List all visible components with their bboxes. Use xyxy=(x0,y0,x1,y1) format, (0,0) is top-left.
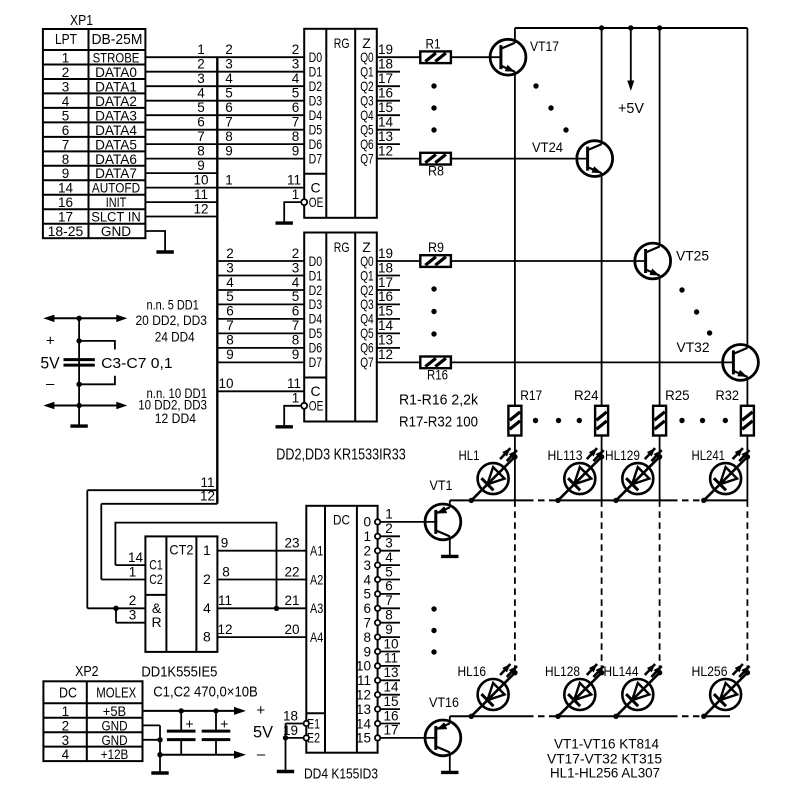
svg-text:5: 5 xyxy=(363,587,371,602)
svg-text:2: 2 xyxy=(385,521,393,536)
svg-text:SLCT IN: SLCT IN xyxy=(91,210,141,225)
svg-text:17: 17 xyxy=(378,71,393,86)
svg-text:20: 20 xyxy=(284,622,299,637)
svg-text:A4: A4 xyxy=(310,629,323,645)
svg-text:21: 21 xyxy=(284,593,299,608)
svg-text:14: 14 xyxy=(378,318,394,333)
svg-text:16: 16 xyxy=(58,195,73,210)
svg-text:9: 9 xyxy=(197,158,205,173)
svg-text:14: 14 xyxy=(378,115,394,130)
svg-text:+12B: +12B xyxy=(101,747,129,762)
svg-text:DATA4: DATA4 xyxy=(95,123,137,138)
svg-text:13: 13 xyxy=(378,333,393,348)
svg-text:R1: R1 xyxy=(426,37,441,52)
svg-text:2: 2 xyxy=(292,42,300,57)
svg-text:12: 12 xyxy=(378,347,393,362)
svg-text:1: 1 xyxy=(363,529,371,544)
svg-text:15: 15 xyxy=(378,100,393,115)
svg-text:2: 2 xyxy=(226,246,234,261)
svg-text:AUTOFD: AUTOFD xyxy=(92,181,140,196)
svg-text:VT24: VT24 xyxy=(532,139,563,155)
svg-text:8: 8 xyxy=(292,129,300,144)
svg-text:5V: 5V xyxy=(40,355,59,373)
svg-text:1: 1 xyxy=(197,42,205,57)
svg-text:15: 15 xyxy=(378,304,393,319)
svg-text:8: 8 xyxy=(226,333,234,348)
svg-text:19: 19 xyxy=(378,246,393,261)
svg-text:7: 7 xyxy=(292,115,300,130)
svg-text:DATA3: DATA3 xyxy=(95,108,137,123)
svg-text:8: 8 xyxy=(197,143,205,158)
svg-text:DATA0: DATA0 xyxy=(95,65,137,80)
svg-text:1: 1 xyxy=(62,704,70,719)
svg-text:6: 6 xyxy=(292,100,300,115)
svg-text:7: 7 xyxy=(292,318,300,333)
svg-text:R9: R9 xyxy=(428,240,444,255)
svg-text:2: 2 xyxy=(225,42,233,57)
svg-text:R16: R16 xyxy=(427,367,448,382)
svg-text:HL144: HL144 xyxy=(604,664,639,679)
svg-text:4: 4 xyxy=(197,86,205,101)
svg-text:RG: RG xyxy=(334,239,350,255)
svg-text:HL1: HL1 xyxy=(459,448,480,463)
svg-text:4: 4 xyxy=(292,275,300,290)
svg-text:11: 11 xyxy=(287,376,301,391)
svg-text:19: 19 xyxy=(378,42,393,57)
svg-text:10: 10 xyxy=(356,659,371,674)
svg-text:8: 8 xyxy=(292,333,300,348)
svg-text:4: 4 xyxy=(225,71,233,86)
svg-text:DC: DC xyxy=(333,512,350,528)
svg-text:HL128: HL128 xyxy=(545,664,580,679)
svg-text:2: 2 xyxy=(197,57,205,72)
svg-text:12: 12 xyxy=(217,622,232,637)
svg-text:8: 8 xyxy=(222,564,230,579)
svg-text:12 DD4: 12 DD4 xyxy=(155,411,197,426)
svg-text:HL1-HL256 AL307: HL1-HL256 AL307 xyxy=(550,765,660,781)
svg-text:+: + xyxy=(185,716,193,732)
svg-text:16: 16 xyxy=(378,86,393,101)
svg-text:DATA5: DATA5 xyxy=(95,137,137,152)
svg-text:3: 3 xyxy=(62,79,70,94)
svg-text:4: 4 xyxy=(62,94,70,109)
svg-text:5: 5 xyxy=(292,86,300,101)
svg-text:3: 3 xyxy=(225,57,233,72)
svg-text:3: 3 xyxy=(363,558,371,573)
svg-text:10: 10 xyxy=(218,376,233,391)
svg-text:7: 7 xyxy=(385,593,393,608)
svg-text:DATA7: DATA7 xyxy=(95,166,137,181)
svg-text:XP2: XP2 xyxy=(75,663,98,680)
svg-text:12: 12 xyxy=(378,143,393,158)
svg-text:–: – xyxy=(46,375,55,392)
svg-text:7: 7 xyxy=(197,129,205,144)
svg-text:MOLEX: MOLEX xyxy=(96,686,136,702)
svg-text:9: 9 xyxy=(226,347,234,362)
svg-text:0: 0 xyxy=(363,515,371,530)
svg-text:7: 7 xyxy=(226,318,234,333)
svg-text:n.n. 5 DD1: n.n. 5 DD1 xyxy=(147,298,199,313)
svg-text:R24: R24 xyxy=(574,388,599,403)
svg-text:1: 1 xyxy=(292,187,300,202)
svg-text:D7: D7 xyxy=(309,150,323,166)
svg-text:6: 6 xyxy=(363,601,371,616)
svg-text:C1,C2 470,0×10B: C1,C2 470,0×10B xyxy=(153,684,258,701)
svg-text:7: 7 xyxy=(62,137,70,152)
svg-text:9: 9 xyxy=(292,143,300,158)
svg-text:4: 4 xyxy=(363,572,371,587)
svg-text:DATA2: DATA2 xyxy=(95,94,137,109)
svg-text:1: 1 xyxy=(292,391,300,406)
svg-text:LPT: LPT xyxy=(55,32,77,48)
svg-text:14: 14 xyxy=(356,716,372,731)
svg-text:3: 3 xyxy=(129,608,137,623)
svg-text:–: – xyxy=(257,746,266,763)
svg-text:HL16: HL16 xyxy=(458,664,487,679)
svg-text:3: 3 xyxy=(197,71,205,86)
svg-text:18: 18 xyxy=(378,57,393,72)
svg-text:1: 1 xyxy=(385,507,393,522)
svg-text:5: 5 xyxy=(292,289,300,304)
svg-text:11: 11 xyxy=(287,172,301,187)
svg-text:4: 4 xyxy=(226,275,234,290)
svg-text:9: 9 xyxy=(292,347,300,362)
svg-text:6: 6 xyxy=(225,100,233,115)
svg-text:16: 16 xyxy=(378,289,393,304)
svg-text:VT16: VT16 xyxy=(429,694,459,710)
svg-text:6: 6 xyxy=(385,579,393,594)
svg-text:R17-R32 100: R17-R32 100 xyxy=(399,414,478,431)
svg-text:8: 8 xyxy=(225,129,233,144)
svg-text:GND: GND xyxy=(102,718,128,733)
svg-text:RG: RG xyxy=(334,35,350,51)
svg-text:10: 10 xyxy=(193,172,208,187)
svg-text:Q7: Q7 xyxy=(360,354,374,370)
svg-text:3: 3 xyxy=(292,260,300,275)
svg-text:1: 1 xyxy=(129,564,137,579)
svg-text:17: 17 xyxy=(383,723,398,738)
svg-text:14: 14 xyxy=(58,181,74,196)
svg-text:4: 4 xyxy=(292,71,300,86)
svg-text:4: 4 xyxy=(62,747,70,762)
svg-text:R: R xyxy=(151,614,161,630)
svg-text:STROBE: STROBE xyxy=(93,50,140,65)
svg-text:+: + xyxy=(256,702,265,719)
svg-text:XP1: XP1 xyxy=(70,12,93,29)
svg-text:2: 2 xyxy=(203,571,211,587)
svg-text:2: 2 xyxy=(292,246,300,261)
svg-text:GND: GND xyxy=(102,733,128,748)
svg-text:4: 4 xyxy=(203,600,211,616)
svg-text:12: 12 xyxy=(200,489,215,504)
svg-text:5: 5 xyxy=(197,100,205,115)
svg-text:DD4 K155ID3: DD4 K155ID3 xyxy=(304,766,378,783)
svg-text:VT1: VT1 xyxy=(430,477,453,493)
svg-text:6: 6 xyxy=(62,123,70,138)
svg-text:R1-R16 2,2k: R1-R16 2,2k xyxy=(399,392,478,409)
svg-text:A1: A1 xyxy=(310,543,323,559)
svg-text:VT25: VT25 xyxy=(676,248,709,264)
svg-text:17: 17 xyxy=(378,275,393,290)
svg-text:12: 12 xyxy=(356,688,371,703)
svg-text:5: 5 xyxy=(62,108,70,123)
svg-text:8: 8 xyxy=(203,629,211,645)
svg-text:18: 18 xyxy=(378,260,393,275)
svg-text:5: 5 xyxy=(385,564,393,579)
svg-text:DD1K555IE5: DD1K555IE5 xyxy=(141,664,217,681)
svg-text:3: 3 xyxy=(226,260,234,275)
svg-text:15: 15 xyxy=(356,731,371,746)
svg-text:18: 18 xyxy=(283,709,298,724)
svg-text:D7: D7 xyxy=(309,354,323,370)
svg-text:8: 8 xyxy=(363,630,371,645)
svg-text:9: 9 xyxy=(363,644,371,659)
svg-text:OE: OE xyxy=(309,194,324,210)
svg-text:3: 3 xyxy=(292,57,300,72)
svg-text:23: 23 xyxy=(284,536,299,551)
svg-text:13: 13 xyxy=(378,129,393,144)
svg-text:11: 11 xyxy=(384,651,398,666)
svg-text:14: 14 xyxy=(128,550,144,565)
svg-text:+: + xyxy=(46,333,55,350)
svg-text:Q7: Q7 xyxy=(360,150,374,166)
svg-text:22: 22 xyxy=(284,564,299,579)
svg-text:20 DD2, DD3: 20 DD2, DD3 xyxy=(136,313,208,328)
svg-text:18-25: 18-25 xyxy=(48,224,84,239)
svg-text:11: 11 xyxy=(194,187,208,202)
svg-text:+5V: +5V xyxy=(618,101,644,117)
svg-text:A2: A2 xyxy=(310,571,323,587)
svg-text:13: 13 xyxy=(356,702,371,717)
svg-text:VT17: VT17 xyxy=(530,38,559,54)
svg-text:2: 2 xyxy=(129,593,137,608)
svg-text:INIT: INIT xyxy=(106,195,127,210)
svg-text:HL113: HL113 xyxy=(548,448,583,463)
svg-text:9: 9 xyxy=(62,166,70,181)
svg-text:5: 5 xyxy=(226,289,234,304)
svg-text:10: 10 xyxy=(383,636,398,651)
svg-text:DB-25M: DB-25M xyxy=(92,32,143,48)
svg-text:7: 7 xyxy=(363,616,371,631)
svg-text:5: 5 xyxy=(225,86,233,101)
svg-text:16: 16 xyxy=(383,708,398,723)
svg-text:R32: R32 xyxy=(716,388,740,403)
svg-text:14: 14 xyxy=(383,680,399,695)
svg-text:13: 13 xyxy=(383,665,398,680)
svg-text:HL129: HL129 xyxy=(605,448,640,463)
svg-text:9: 9 xyxy=(221,536,229,551)
svg-text:15: 15 xyxy=(383,694,398,709)
svg-text:C2: C2 xyxy=(149,571,163,587)
svg-text:6: 6 xyxy=(226,304,234,319)
svg-text:C3-C7 0,1: C3-C7 0,1 xyxy=(101,355,173,372)
svg-text:+: + xyxy=(220,716,228,732)
svg-text:A3: A3 xyxy=(310,600,323,616)
svg-text:DC: DC xyxy=(59,686,77,702)
svg-text:9: 9 xyxy=(385,622,393,637)
svg-text:2: 2 xyxy=(62,65,70,80)
svg-text:12: 12 xyxy=(193,201,208,216)
svg-text:2: 2 xyxy=(363,544,371,559)
svg-text:VT32: VT32 xyxy=(677,339,710,355)
svg-text:7: 7 xyxy=(225,115,233,130)
svg-text:3: 3 xyxy=(385,536,393,551)
svg-text:8: 8 xyxy=(385,608,393,623)
svg-text:HL241: HL241 xyxy=(692,448,726,463)
svg-text:OE: OE xyxy=(309,398,324,414)
svg-text:CT2: CT2 xyxy=(169,542,193,558)
svg-text:4: 4 xyxy=(385,550,393,565)
svg-text:VT1-VT16 KT814: VT1-VT16 KT814 xyxy=(554,736,659,752)
svg-text:R8: R8 xyxy=(428,164,444,179)
svg-text:R17: R17 xyxy=(520,388,542,403)
svg-text:9: 9 xyxy=(225,143,233,158)
svg-text:GND: GND xyxy=(101,224,131,239)
svg-text:HL256: HL256 xyxy=(692,664,728,679)
svg-text:R25: R25 xyxy=(665,388,690,403)
svg-text:2: 2 xyxy=(62,718,70,733)
svg-text:5V: 5V xyxy=(253,724,273,742)
svg-text:17: 17 xyxy=(58,210,73,225)
svg-text:6: 6 xyxy=(197,115,205,130)
svg-text:8: 8 xyxy=(62,152,70,167)
svg-text:11: 11 xyxy=(218,593,232,608)
svg-text:19: 19 xyxy=(283,723,298,738)
svg-text:1: 1 xyxy=(203,542,211,558)
svg-text:6: 6 xyxy=(292,304,300,319)
svg-text:DATA6: DATA6 xyxy=(95,152,137,167)
svg-text:24 DD4: 24 DD4 xyxy=(155,330,195,345)
svg-text:+5B: +5B xyxy=(103,704,126,719)
svg-text:11: 11 xyxy=(357,673,371,688)
svg-text:DD2,DD3 KR1533IR33: DD2,DD3 KR1533IR33 xyxy=(276,447,405,464)
svg-text:DATA1: DATA1 xyxy=(95,79,137,94)
svg-text:1: 1 xyxy=(62,50,70,65)
svg-text:3: 3 xyxy=(62,733,70,748)
svg-text:1: 1 xyxy=(225,172,233,187)
